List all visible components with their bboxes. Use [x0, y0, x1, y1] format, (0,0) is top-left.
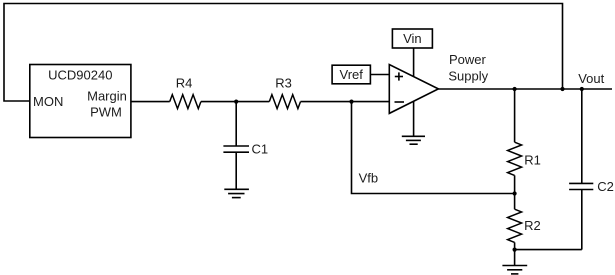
svg-text:Vin: Vin: [403, 31, 422, 46]
svg-text:PWM: PWM: [90, 105, 122, 120]
capacitor C1 top lead: [235, 102, 237, 146]
node: junction R4/C1: [234, 100, 238, 104]
wire: Margin PWM output to R4: [131, 101, 170, 103]
wire: op-amp ground pin: [413, 102, 415, 137]
svg-text:C2: C2: [597, 179, 614, 194]
svg-text:C1: C1: [252, 142, 269, 157]
node: junction output/C2: [580, 87, 584, 91]
Vin source box: [392, 29, 432, 48]
svg-text:Vfb: Vfb: [359, 171, 379, 186]
svg-text:R3: R3: [275, 76, 292, 91]
node: junction R1/R2/Vfb: [513, 191, 517, 195]
wire: Vref to op-amp non-inverting input: [370, 74, 389, 76]
capacitor C1 plates: [223, 146, 249, 152]
wire Vfb: from inverting input tap down and right to divider: [352, 102, 515, 194]
svg-text:MON: MON: [33, 94, 63, 109]
op-amp U1 triangle: [389, 65, 438, 114]
capacitor C2 plates: [569, 183, 593, 189]
ground below op-amp: [402, 136, 425, 144]
node: junction Vfb tap: [349, 100, 353, 104]
node: junction R2/C2 ground: [513, 248, 517, 252]
svg-text:Supply: Supply: [448, 69, 488, 84]
wire: R4 to R3: [201, 101, 269, 103]
wire: feedback loop from MON pin up across top to Vout node: [4, 4, 563, 102]
capacitor C2 bottom lead: [581, 190, 583, 250]
wire: C2 bottom to ground node: [515, 249, 582, 251]
capacitor C2 top lead: [581, 89, 583, 183]
ground below C1: [224, 189, 249, 197]
svg-text:Vout: Vout: [578, 71, 604, 86]
wire: R3 to op-amp inverting input: [301, 101, 390, 103]
op-amp plus input symbol: [395, 72, 403, 80]
resistor R3: [269, 95, 300, 109]
ground below R2: [502, 266, 527, 274]
wire: Vin to op-amp power pin: [413, 48, 415, 77]
Vref source box: [332, 65, 370, 84]
pin label Margin PWM: [87, 89, 127, 120]
node: junction output/R1: [513, 87, 517, 91]
wire: R1 to Vfb node: [514, 175, 516, 193]
resistor R4: [170, 95, 201, 109]
svg-text:Vref: Vref: [340, 67, 364, 82]
resistor R2: [508, 209, 522, 242]
svg-text:Margin: Margin: [87, 89, 127, 104]
op-amp minus input symbol: [395, 101, 405, 103]
capacitor C1 bottom lead: [235, 152, 237, 189]
IC U1 UCD90240 box: [30, 65, 131, 138]
wire: R2 to ground node: [514, 242, 516, 249]
svg-text:R2: R2: [524, 218, 541, 233]
svg-text:UCD90240: UCD90240: [48, 68, 112, 83]
svg-text:R4: R4: [176, 76, 193, 91]
svg-text:Power: Power: [449, 52, 487, 67]
wire: op-amp output to Vout: [438, 88, 612, 90]
node: junction output/feedback loop: [560, 87, 564, 91]
wire: ground stub below R2: [514, 250, 516, 266]
wire: output node down to R1: [514, 89, 516, 142]
wire: Vfb node to R2: [514, 194, 516, 210]
resistor R1: [508, 142, 522, 175]
svg-text:R1: R1: [524, 153, 541, 168]
label Power Supply: [448, 52, 488, 84]
